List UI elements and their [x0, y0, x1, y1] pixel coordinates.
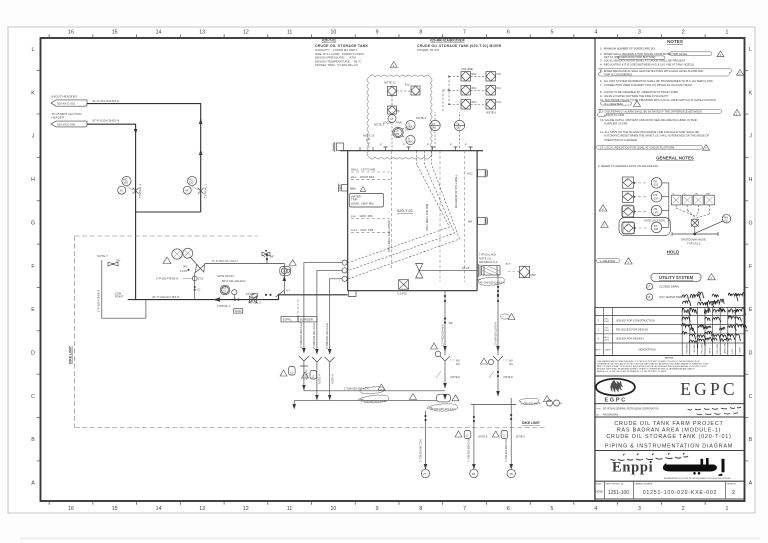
small items near 263,255: [262, 252, 270, 256]
svg-text:080L: 080L: [408, 126, 414, 129]
drop to utility circle 27: [420, 411, 430, 478]
valve on riser1 x=135.6: [118, 176, 142, 198]
svg-text:4- REGULATING KIT IS USED BET: 4- REGULATING KIT IS USED BETWEEN A/G & …: [600, 63, 695, 67]
svg-text:C-14/25: C-14/25: [397, 292, 407, 296]
svg-text:10- SHUTDOWN VALVE TO BE PROVI: 10- SHUTDOWN VALVE TO BE PROVIDED WITH L…: [600, 98, 716, 102]
svg-text:SUPPLIER SCOPE.: SUPPLIER SCOPE.: [604, 122, 628, 126]
svg-text:INSTR.: INSTR.: [709, 347, 711, 354]
svg-text:NOTE 6: NOTE 6: [486, 111, 497, 115]
PLC box pair in cloud: [388, 83, 421, 107]
cloud label lower header: [358, 394, 417, 403]
svg-text:3/4": 3/4": [183, 264, 188, 268]
note 13 left: [363, 134, 375, 151]
svg-text:C: C: [749, 394, 753, 400]
right wall nozzle MH: [468, 217, 488, 226]
header flag 020-KKC-001: [51, 95, 87, 107]
svg-text:DIKE LIMIT: DIKE LIMIT: [522, 421, 541, 425]
svg-text:RAS BADRAN: RAS BADRAN: [603, 413, 618, 416]
svg-text:18 1/2": 18 1/2": [462, 266, 470, 270]
svg-text:H: H: [749, 177, 753, 183]
svg-text:REV: REV: [596, 350, 601, 352]
svg-text:DH: DH: [366, 138, 370, 142]
row2: [622, 191, 633, 202]
svg-text:RAS BADRAN AREA (MODULE-1): RAS BADRAN AREA (MODULE-1): [617, 427, 721, 433]
svg-text:12- DISCREPANCY ALARM SHALL BE: 12- DISCREPANCY ALARM SHALL BE INITIATED…: [600, 109, 702, 113]
swing line wall nozzles: [342, 260, 347, 281]
svg-text:G: G: [748, 220, 752, 226]
supplier boxes: [281, 300, 317, 322]
local panel stack: [383, 106, 402, 151]
collector box: [437, 394, 460, 402]
svg-text:LEVEL 2800 MM: LEVEL 2800 MM: [351, 202, 374, 206]
svg-text:2: 2: [682, 30, 685, 36]
svg-text:F: F: [31, 264, 34, 270]
svg-text:18: 18: [472, 472, 476, 476]
svg-text:K: K: [31, 90, 35, 96]
svg-text:SCALE: SCALE: [596, 483, 603, 486]
svg-text:01251-100-020-KXE-002: 01251-100-020-KXE-002: [643, 490, 717, 496]
svg-text:UTILITY SYSTEM: UTILITY SYSTEM: [659, 275, 694, 280]
gate location row4: [619, 218, 671, 236]
svg-text:27: 27: [423, 472, 427, 476]
svg-text:7: 7: [463, 30, 466, 36]
svg-text:HEADER: HEADER: [52, 116, 65, 120]
svg-text:CRUDE OIL STORAGE TANK (020-T-: CRUDE OIL STORAGE TANK (020-T-01): [606, 434, 731, 440]
svg-text:CIC: CIC: [625, 194, 629, 196]
svg-text:PROJ.ENG: PROJ.ENG: [717, 343, 719, 353]
svg-text:020-T-01: 020-T-01: [397, 208, 414, 213]
svg-text:EGPC: EGPC: [604, 397, 626, 403]
svg-text:1"-DW-020-300-A3-N: 1"-DW-020-300-A3-N: [344, 386, 369, 390]
svg-text:SUPPL.: SUPPL.: [283, 318, 293, 322]
right panel divider: [594, 38, 596, 501]
svg-text:1: 1: [725, 506, 728, 512]
svg-text:ZSH: ZSH: [706, 193, 711, 195]
tank title block: [315, 39, 369, 68]
mixer shaft bowtie: [416, 264, 478, 279]
svg-text:A: A: [31, 481, 35, 487]
EGPC eagle logo: [596, 379, 635, 396]
svg-text:6: 6: [507, 506, 510, 512]
svg-text:EGYPTIAN GENERAL PETROLEUM COR: EGYPTIAN GENERAL PETROLEUM CORPORATION: [603, 407, 659, 410]
svg-text:2"-DW-020-022-A3-N: 2"-DW-020-022-A3-N: [325, 323, 329, 349]
right going line to OW flags: [471, 396, 562, 407]
svg-text:L: L: [32, 47, 35, 53]
svg-text:STILL WELL FOR RIM: STILL WELL FOR RIM: [425, 203, 429, 231]
left nozzle MBA: [339, 184, 366, 193]
svg-text:5- MIXER MECHANICAL SEAL LEAK: 5- MIXER MECHANICAL SEAL LEAK DETECTORS …: [600, 69, 703, 73]
svg-text:MH: MH: [468, 219, 472, 223]
svg-text:020-T-01: 020-T-01: [322, 39, 336, 43]
svg-text:3/4": 3/4": [116, 259, 121, 263]
svg-text:SHUTDOWN VALVE: SHUTDOWN VALVE: [681, 237, 706, 241]
svg-text:16: 16: [68, 506, 74, 512]
riser continuation to headers: [304, 366, 330, 400]
svg-text:14: 14: [156, 506, 162, 512]
svg-text:15"X42": 15"X42": [246, 292, 255, 296]
flange dots on pipe: [265, 294, 267, 296]
svg-text:PLC: PLC: [497, 101, 502, 104]
svg-text:HS: HS: [396, 110, 400, 113]
wire riser joint: [136, 211, 201, 213]
svg-text:6: 6: [507, 30, 510, 36]
flow arrow left on main pipe: [213, 297, 220, 301]
svg-text:NOTE 2: NOTE 2: [416, 116, 427, 120]
arabic squiggles: [688, 407, 742, 415]
svg-text:OILY WATER DRAIN: OILY WATER DRAIN: [659, 295, 684, 299]
note 7 drain assembly: [97, 254, 146, 318]
note triangles: [717, 51, 724, 57]
svg-text:E: E: [749, 307, 753, 313]
svg-text:ISSUED FOR DESIGN: ISSUED FOR DESIGN: [616, 337, 644, 341]
level HHLL: [351, 168, 390, 173]
svg-text:LIT: LIT: [432, 123, 436, 126]
svg-text:CHECKED: CHECKED: [694, 344, 696, 354]
svg-text:1"-CW-020-007-C3-N: 1"-CW-020-007-C3-N: [420, 439, 423, 462]
note clouds: [669, 52, 712, 56]
svg-text:GENERAL NOTES: GENERAL NOTES: [656, 156, 694, 161]
svg-text:15: 15: [112, 506, 118, 512]
mixer motor: [506, 263, 537, 278]
svg-text:VESSEL TRIM : VT-020-001-A3: VESSEL TRIM : VT-020-001-A3: [315, 63, 358, 67]
right wall nozzle ACC: [467, 169, 488, 178]
svg-text:2"-P-020-478-B3-N: 2"-P-020-478-B3-N: [156, 277, 178, 281]
shutdown valve: [672, 214, 731, 245]
mixer drain line down: [497, 275, 499, 355]
svg-text:LG: LG: [625, 179, 628, 181]
arabic line: [611, 453, 689, 460]
LI circles: [402, 116, 427, 145]
svg-text:NOTE-4: NOTE-4: [318, 374, 322, 384]
sump: [349, 291, 357, 297]
riser labels: [299, 322, 334, 384]
svg-text:RFG: RFG: [472, 73, 477, 76]
svg-text:EGPC: EGPC: [732, 348, 734, 354]
svg-text:NONE: NONE: [596, 490, 604, 494]
svg-text:13- GAUGE HATCH, RIM VENT AND: 13- GAUGE HATCH, RIM VENT AND ROOF SEALI…: [600, 118, 698, 122]
header flag 020-KKC-006: [51, 112, 87, 127]
svg-text:1- DELETED: 1- DELETED: [600, 259, 616, 263]
svg-text:109: 109: [124, 181, 129, 185]
gate valve on main pipe: [250, 296, 257, 303]
still well dashed 3: [454, 151, 465, 282]
svg-text:5: 5: [551, 30, 554, 36]
svg-text:N.7: N.7: [286, 290, 291, 293]
right riser 2 (mixer drain x=498): [481, 295, 516, 397]
svg-text:RE-ISSUED FOR DESIGN: RE-ISSUED FOR DESIGN: [616, 328, 648, 332]
svg-text:082: 082: [457, 127, 462, 130]
svg-text:HOLD: HOLD: [667, 250, 679, 255]
svg-text:TYPICAL 2: TYPICAL 2: [687, 241, 701, 245]
svg-text:16: 16: [68, 30, 74, 36]
wire header2 to riser: [87, 124, 136, 299]
water trip level box: [350, 194, 384, 208]
svg-text:1251-100: 1251-100: [608, 490, 629, 496]
svg-text:F: F: [749, 264, 752, 270]
water drawoff line from tank bottom: [444, 291, 453, 355]
swing line (3 bent dashed lines): [349, 151, 460, 279]
svg-text:9- VALVE LOCATED OUTSIDE THE: 9- VALVE LOCATED OUTSIDE THE DIKE IN VAL…: [600, 94, 669, 98]
svg-text:MAXIMUM OF STILL WELL: MAXIMUM OF STILL WELL: [454, 174, 458, 208]
svg-text:10: 10: [331, 506, 337, 512]
FE instrument: [454, 112, 464, 151]
svg-text:7- CONNECTION USED FOR EMPTYI: 7- CONNECTION USED FOR EMPTYING UG PIPIN…: [600, 83, 693, 87]
svg-text:LO: LO: [197, 289, 200, 292]
nozzle stub lines to risers: [304, 263, 342, 352]
svg-text:L: L: [749, 47, 752, 53]
svg-text:11: 11: [287, 30, 292, 36]
svg-text:A3-N: A3-N: [506, 263, 511, 266]
svg-text:42"-P-020-017-B3-N: 42"-P-020-017-B3-N: [152, 295, 179, 299]
deleted cloud: [596, 258, 632, 265]
mixer 020-MR-01 body: [478, 253, 500, 277]
svg-text:18: 18: [509, 472, 513, 476]
svg-text:A/G: A/G: [456, 360, 460, 363]
svg-text:NOTE 10/1/14: NOTE 10/1/14: [217, 274, 234, 278]
svg-text:6- ALL PRO SYSTEM INFORMATION: 6- ALL PRO SYSTEM INFORMATION SHALL BE T…: [600, 79, 714, 83]
pipe 42-P-020-017-B3-N: [128, 295, 348, 300]
PSV cluster above pipe: [156, 248, 205, 299]
svg-text:1"-OW-020-309-C3-N: 1"-OW-020-309-C3-N: [505, 439, 508, 462]
svg-text:15: 15: [112, 30, 118, 36]
svg-text:NOTE-8: NOTE-8: [504, 376, 514, 379]
warning triangle top: [390, 62, 397, 68]
svg-text:9: 9: [376, 30, 379, 36]
mixer title block: [417, 39, 502, 53]
tank shell: [340, 151, 483, 291]
svg-text:8: 8: [419, 30, 422, 36]
svg-text:82"-P-021-119-A3-N: 82"-P-021-119-A3-N: [222, 279, 245, 283]
line 2"-P-020-077-A3-N: [205, 253, 297, 298]
svg-text:A/G: A/G: [456, 363, 460, 366]
row3: [621, 205, 634, 217]
svg-text:1"-OW-020-308-C3-N: 1"-OW-020-308-C3-N: [468, 439, 471, 462]
svg-text:Enppi: Enppi: [612, 459, 653, 475]
svg-text:DRAWING NUMBER: DRAWING NUMBER: [635, 483, 653, 486]
utility system: [646, 273, 715, 300]
svg-text:020-KKC-001: 020-KKC-001: [57, 102, 76, 106]
svg-text:J: J: [32, 134, 35, 140]
svg-text:RFG: RFG: [472, 87, 477, 90]
level LLL: [351, 214, 390, 219]
svg-text:8- LIQUID TO BE VIEWABLE BY: 8- LIQUID TO BE VIEWABLE BY OPERATOR AT …: [600, 90, 679, 94]
svg-text:B: B: [749, 437, 753, 443]
row2: [461, 86, 471, 96]
svg-text:2"x3/4": 2"x3/4": [180, 270, 188, 273]
svg-text:FOR: FOR: [597, 408, 602, 410]
svg-text:TE: TE: [456, 123, 460, 126]
row1: [461, 72, 471, 82]
svg-text:A: A: [749, 481, 753, 487]
riser tag boxes: [280, 367, 317, 380]
svg-text:H: H: [560, 402, 562, 405]
svg-text:CLOSED DRAIN: CLOSED DRAIN: [659, 285, 679, 289]
svg-text:1: 1: [725, 30, 728, 36]
svg-text:ARISING OUT OF THE USE OF ANY: ARISING OUT OF THE USE OF ANY INFORMATIO…: [597, 370, 667, 373]
svg-text:REVISION: REVISION: [727, 484, 737, 486]
svg-text:110: 110: [189, 181, 194, 185]
wire header1 to riser: [87, 104, 201, 212]
svg-text:PLC: PLC: [497, 73, 502, 76]
bottom scan shadow: [20, 538, 760, 540]
svg-text:020-MR-01 A-F: 020-MR-01 A-F: [479, 260, 498, 264]
arabic enppi blob: [663, 458, 725, 476]
svg-text:ENPPI PROJECT No.: ENPPI PROJECT No.: [606, 484, 625, 486]
svg-text:1"-OW-020-308-A: 1"-OW-020-308-A: [521, 402, 541, 405]
svg-text:081: 081: [432, 127, 437, 130]
svg-text:OPERATION IS CHANGED.: OPERATION IS CHANGED.: [604, 138, 638, 142]
motor valve on main pipe: [217, 290, 243, 314]
svg-text:080G: 080G: [408, 141, 414, 144]
svg-text:NOTE-9: NOTE-9: [479, 436, 488, 439]
svg-text:NOTICE: NOTICE: [665, 358, 674, 360]
svg-text:43"-OW-020-118-A3-N: 43"-OW-020-118-A3-N: [480, 282, 505, 285]
svg-text:4: 4: [594, 506, 597, 512]
svg-text:L/R: L/R: [654, 211, 658, 214]
top nozzles on tank roof: [360, 144, 473, 151]
svg-text:2"-P-020-476-B3-N: 2"-P-020-476-B3-N: [97, 290, 101, 312]
svg-text:A/G: A/G: [509, 363, 513, 366]
svg-text:C: C: [31, 394, 35, 400]
svg-text:12: 12: [243, 30, 249, 36]
svg-text:EGPC: EGPC: [680, 379, 738, 399]
svg-text:DIKE LIMIT: DIKE LIMIT: [69, 345, 73, 364]
svg-text:J: J: [749, 134, 752, 140]
svg-text:020-KKC-006: 020-KKC-006: [57, 123, 76, 127]
svg-text:NOTE 13: NOTE 13: [363, 134, 375, 138]
svg-text:NOTE-9: NOTE-9: [516, 436, 525, 439]
right riser 1 (water drawoff x=445): [431, 295, 461, 388]
svg-text:TYPICAL A(3): TYPICAL A(3): [479, 253, 496, 257]
C-14/25 valve on bottom: [397, 280, 409, 296]
level LLLL: [351, 228, 390, 233]
row3: [461, 100, 471, 110]
signature scribbles: [682, 292, 747, 348]
LIT instrument: [430, 112, 440, 151]
svg-text:8: 8: [419, 506, 422, 512]
svg-text:TYPICAL 2: TYPICAL 2: [248, 301, 261, 305]
svg-text:2"-P-020-077-A3-N: 2"-P-020-077-A3-N: [212, 259, 238, 263]
still well for LT dashed: [387, 151, 392, 268]
svg-text:ENGINEERING FOR THE PETROLEUM: ENGINEERING FOR THE PETROLEUM AND PROCES…: [664, 477, 731, 480]
svg-text:011: 011: [724, 219, 728, 222]
svg-text:TYPICAL 3: TYPICAL 3: [217, 304, 230, 308]
svg-text:RFG: RFG: [472, 101, 477, 104]
horizontal drain headers: [304, 390, 445, 392]
svg-text:1- MINIMUM NUMBER OF MIXERS A: 1- MINIMUM NUMBER OF MIXERS ARE SIX.: [600, 46, 656, 50]
svg-text:(11- DELETED): (11- DELETED): [604, 102, 623, 106]
svg-text:MBA: MBA: [350, 186, 356, 190]
svg-text:H: H: [31, 177, 35, 183]
svg-text:TYPICAL 1: TYPICAL 1: [204, 184, 208, 198]
svg-text:NOTE 2: NOTE 2: [374, 123, 385, 127]
svg-text:NOTE 2,5: NOTE 2,5: [479, 256, 491, 260]
svg-text:12: 12: [243, 506, 249, 512]
drawing frame: [41, 38, 745, 501]
svg-text:PIPING & INSTRUMENTATION DIAGR: PIPING & INSTRUMENTATION DIAGRAM: [605, 444, 733, 450]
svg-text:2"-DW-020-021-A3-N: 2"-DW-020-021-A3-N: [312, 323, 316, 349]
svg-text:B: B: [31, 437, 35, 443]
svg-text:2"-DW-020-020-A3-N: 2"-DW-020-020-A3-N: [299, 322, 303, 348]
riser angle valves: [299, 356, 335, 367]
svg-text:10: 10: [331, 30, 337, 36]
svg-text:9: 9: [376, 506, 379, 512]
svg-text:PIT: PIT: [222, 288, 226, 290]
svg-text:CLIENT: CLIENT: [740, 346, 742, 354]
svg-text:IN/OUT HEADERS: IN/OUT HEADERS: [52, 95, 77, 99]
svg-text:K: K: [749, 90, 753, 96]
svg-text:POINT: POINT: [115, 295, 124, 299]
svg-text:033: 033: [654, 184, 659, 187]
level HLL: [351, 175, 390, 180]
svg-text:020-MR-01A/B/C/D/E/F: 020-MR-01A/B/C/D/E/F: [430, 39, 465, 43]
svg-text:E: E: [31, 307, 35, 313]
svg-text:2"X1": 2"X1": [198, 278, 204, 281]
svg-text:PREPARED: PREPARED: [686, 343, 689, 354]
branch C below dike: [492, 405, 525, 478]
svg-text:PROC.ENG: PROC.ENG: [702, 343, 704, 354]
svg-text:TYPICAL 1: TYPICAL 1: [138, 184, 142, 198]
svg-text:PLC: PLC: [405, 83, 410, 87]
svg-text:1- REFER TO GENERAL NOTE ON 02: 1- REFER TO GENERAL NOTE ON 020-KKE-001.: [598, 164, 659, 168]
svg-text:K2/42: K2/42: [235, 309, 242, 313]
svg-text:A/G: A/G: [509, 360, 513, 363]
mixer drain cloud label: [477, 277, 505, 286]
dashed chain to cloud: [449, 76, 461, 104]
svg-text:CRUDE OIL TANK FARM PROJECT: CRUDE OIL TANK FARM PROJECT: [614, 421, 723, 427]
svg-text:NOTE 7: NOTE 7: [97, 254, 108, 258]
svg-text:11: 11: [287, 506, 292, 512]
svg-text:NOTE-8: NOTE-8: [451, 376, 461, 379]
svg-text:DATE: DATE: [605, 349, 611, 352]
svg-text:LLL 1200 MM: LLL 1200 MM: [351, 214, 373, 218]
svg-text:14- ALL SDVS ON THE FILLING/ D: 14- ALL SDVS ON THE FILLING/ DISCHARGE L…: [600, 130, 699, 134]
svg-text:13: 13: [199, 506, 205, 512]
svg-text:3: 3: [638, 30, 641, 36]
svg-text:HHLL 18770 MM: HHLL 18770 MM: [351, 168, 376, 172]
dike limit left/top/bottom: [69, 236, 548, 428]
svg-text:12"-P-020-019-A3-N: 12"-P-020-019-A3-N: [441, 324, 444, 346]
svg-text:PNR: PNR: [397, 122, 402, 125]
svg-text:3: 3: [638, 506, 641, 512]
svg-text:42"-P-020-002-B3-N: 42"-P-020-002-B3-N: [92, 99, 119, 103]
svg-text:PLC: PLC: [497, 87, 502, 90]
svg-text:GATE LOCATION: GATE LOCATION: [644, 218, 665, 222]
svg-text:2: 2: [732, 490, 735, 496]
svg-text:VOLUME: VOLUME: [461, 67, 473, 71]
svg-text:STILL WELL FOR LT/TMP: STILL WELL FOR LT/TMP: [387, 220, 391, 252]
svg-text:13: 13: [199, 30, 205, 36]
svg-text:POWER: 55 KW: POWER: 55 KW: [417, 48, 439, 52]
svg-text:5: 5: [551, 506, 554, 512]
svg-text:SUPPLIER: SUPPLIER: [300, 318, 313, 322]
cloud label upper header: [344, 384, 385, 394]
svg-text:DESCRIPTION: DESCRIPTION: [638, 349, 655, 352]
svg-text:035: 035: [654, 228, 659, 231]
branch B below dike: [455, 405, 488, 478]
svg-text:080: 080: [395, 133, 400, 136]
svg-text:NOTE 12: NOTE 12: [384, 81, 396, 85]
svg-text:12"-OW-020-118-A3-N: 12"-OW-020-118-A3-N: [494, 322, 497, 346]
svg-text:LSP: LSP: [625, 209, 630, 211]
legend signal bus: [662, 183, 669, 228]
right 4 boxes: [671, 193, 714, 218]
svg-text:AUTOMATIC RESET WHEN THE UPSET: AUTOMATIC RESET WHEN THE UPSET (I.E. HH/…: [604, 134, 709, 138]
svg-text:HLL 16675 MM: HLL 16675 MM: [351, 175, 374, 179]
svg-text:034: 034: [654, 197, 659, 200]
svg-text:2: 2: [682, 506, 685, 512]
left top nozzle MH: [333, 142, 343, 152]
